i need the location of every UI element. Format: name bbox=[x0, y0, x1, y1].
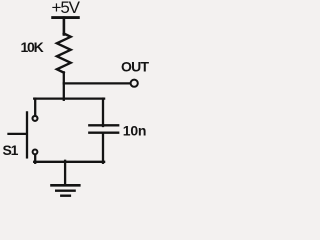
power rail +5V bar bbox=[53, 16, 79, 19]
svg-text:10n: 10n bbox=[123, 123, 147, 139]
switch S1 bar bbox=[26, 112, 28, 157]
svg-text:+5V: +5V bbox=[52, 0, 81, 17]
switch S1 bottom contact bbox=[33, 150, 38, 155]
ground bar 1 bbox=[52, 184, 80, 187]
capacitor C bottom plate bbox=[89, 132, 118, 134]
switch S1 top contact bbox=[33, 116, 38, 121]
svg-text:10K: 10K bbox=[21, 39, 44, 55]
resistor R zigzag bbox=[57, 34, 71, 73]
wire: rail down to switch top contact bbox=[34, 99, 36, 116]
wire: junction to OUT terminal bbox=[64, 82, 130, 84]
wire: rail down to capacitor top plate bbox=[102, 99, 104, 126]
switch S1 actuator bbox=[9, 133, 27, 135]
wire: lower rail (switch top to cap top) bbox=[34, 97, 104, 99]
wire: switch bottom contact to bottom rail bbox=[34, 155, 36, 163]
svg-text:OUT: OUT bbox=[121, 59, 149, 75]
ground bar 2 bbox=[56, 189, 74, 191]
wire: capacitor bottom plate to bottom rail bbox=[102, 133, 104, 163]
svg-text:S1: S1 bbox=[3, 142, 19, 158]
ground stem bbox=[64, 161, 66, 186]
wire: resistor bottom to lower rail bbox=[63, 72, 65, 99]
OUT terminal circle bbox=[131, 80, 138, 87]
ground bar 3 bbox=[61, 194, 70, 196]
capacitor C top plate bbox=[89, 124, 118, 126]
wire: +5V bar to resistor top bbox=[63, 18, 66, 35]
wire: bottom rail (switch to cap) bbox=[34, 161, 104, 163]
